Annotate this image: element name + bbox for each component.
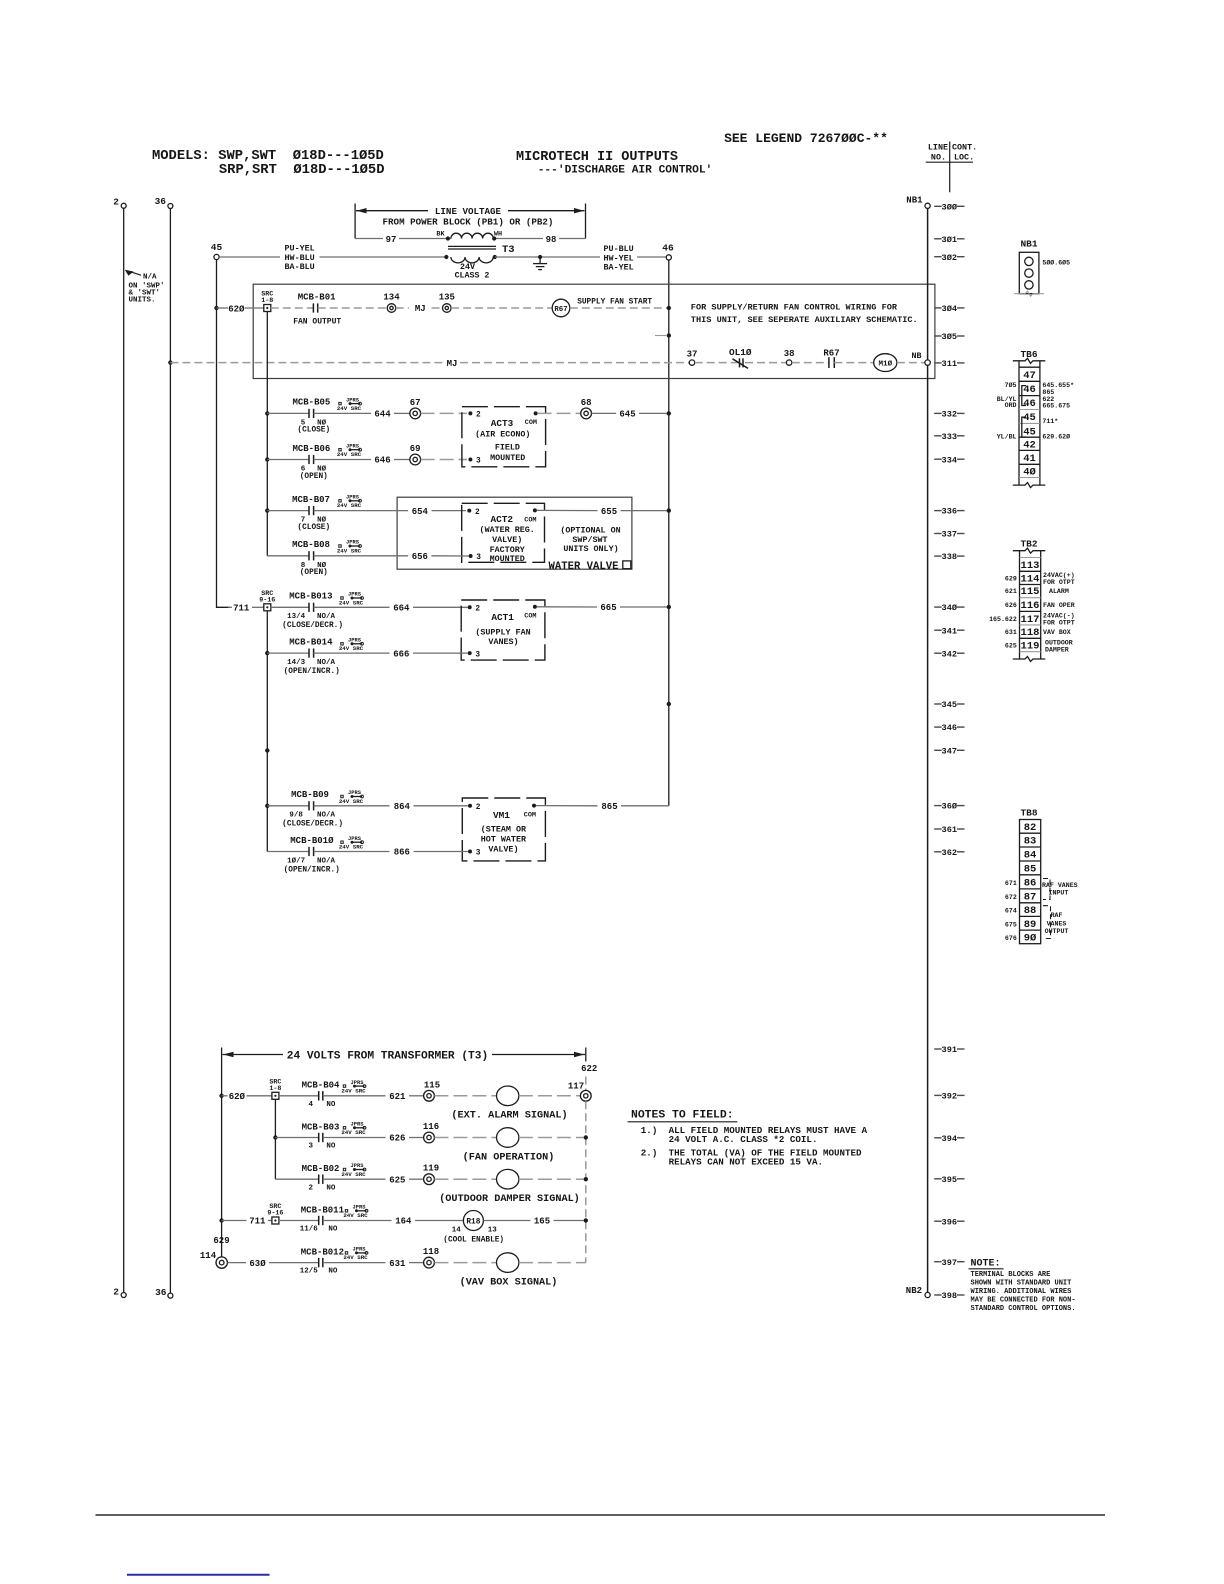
node 115 xyxy=(424,1080,441,1101)
svg-text:NO: NO xyxy=(328,1226,338,1234)
jumper symbol JPRS 24V SRC for B02 xyxy=(341,1163,366,1178)
title MODELS line 1 xyxy=(152,148,384,164)
svg-text:3: 3 xyxy=(476,458,481,466)
ACT1 pin 3 xyxy=(468,651,481,659)
junction dot rail46 wire 655 xyxy=(667,508,671,512)
svg-text:(CLOSE): (CLOSE) xyxy=(297,524,330,532)
svg-text:FAN OPER: FAN OPER xyxy=(1043,602,1075,609)
svg-text:(CLOSE/DECR.): (CLOSE/DECR.) xyxy=(282,821,343,829)
svg-text:MCB-B01Ø: MCB-B01Ø xyxy=(290,836,334,846)
svg-text:MAY BE CONNECTED FOR NON-: MAY BE CONNECTED FOR NON- xyxy=(971,1296,1076,1304)
VM1 pin COM xyxy=(524,804,536,820)
VM1 pin 2 xyxy=(468,804,481,812)
svg-text:645: 645 xyxy=(619,410,635,420)
svg-text:1Ø/7: 1Ø/7 xyxy=(287,856,305,865)
svg-text:3: 3 xyxy=(308,1143,313,1151)
line number 337 xyxy=(934,530,964,540)
label 24V CLASS 2 xyxy=(455,263,490,281)
svg-text:665.675: 665.675 xyxy=(1042,402,1070,409)
svg-text:391: 391 xyxy=(942,1045,957,1055)
svg-text:NB2: NB2 xyxy=(906,1286,922,1296)
lamp outdoor damper signal xyxy=(439,1169,580,1205)
svg-text:113: 113 xyxy=(1021,560,1040,572)
svg-text:(AIR ECONO): (AIR ECONO) xyxy=(475,429,530,439)
junction dot rail46 wire 645 xyxy=(667,411,671,415)
wire dashed node 135 to relay R67 xyxy=(451,307,552,309)
contact MCB-B02 xyxy=(275,1164,339,1192)
wire MJ between nodes 134 135 xyxy=(396,304,443,314)
wire 865 VM1 COM to rail46 corner xyxy=(536,802,669,812)
svg-text:R18: R18 xyxy=(466,1219,480,1227)
ACT2 pin 2 xyxy=(467,509,480,517)
junction dot rail46 line 304 xyxy=(667,306,671,310)
actuator ACT1 dashed box xyxy=(461,600,545,660)
valve motor VM1 dashed box xyxy=(462,798,545,861)
note for supply/return fan control wiring xyxy=(691,303,918,326)
svg-text:N/A: N/A xyxy=(143,274,157,282)
svg-text:341: 341 xyxy=(942,626,957,636)
wire rail SRC9-16 down to B010 xyxy=(266,611,268,852)
source SRC 9-16 square rung B011 xyxy=(267,1203,283,1224)
wire dashed alarm lamp to node 117 xyxy=(519,1095,581,1097)
terminal block TB8 xyxy=(1005,808,1078,945)
label 622 with dashed stub xyxy=(581,1064,597,1090)
svg-text:711: 711 xyxy=(249,1217,266,1227)
svg-text:82: 82 xyxy=(1024,822,1037,834)
wire 164 xyxy=(323,1217,464,1227)
svg-text:JPRS: JPRS xyxy=(353,1205,367,1211)
svg-text:MCB-B013: MCB-B013 xyxy=(289,592,332,602)
node 68 xyxy=(581,398,592,419)
svg-text:3: 3 xyxy=(476,554,481,562)
line number 362 xyxy=(934,848,964,858)
note N/A on SWP and SWT units with arrow xyxy=(125,270,165,305)
wire dashed rail 117 down to B012 xyxy=(585,1101,587,1262)
svg-text:24V SRC: 24V SRC xyxy=(337,451,362,458)
svg-text:42: 42 xyxy=(1023,439,1036,451)
footer rule xyxy=(96,1514,1106,1516)
svg-text:646: 646 xyxy=(374,456,390,466)
ACT1 labels xyxy=(475,612,530,647)
svg-text:24V SRC: 24V SRC xyxy=(341,1087,366,1094)
svg-text:24V SRC: 24V SRC xyxy=(343,1212,368,1219)
wire dashed OL10 to 38 xyxy=(745,362,786,364)
junction dot rail267 B014 xyxy=(265,651,269,655)
wire 664 xyxy=(314,604,468,614)
node 36 bottom terminal xyxy=(155,1287,173,1298)
line number 311 xyxy=(934,359,964,369)
junction dot rail267 B07 xyxy=(265,508,269,512)
svg-text:711: 711 xyxy=(233,604,250,614)
line number 341 xyxy=(934,626,964,636)
svg-text:T3: T3 xyxy=(502,244,515,256)
wire dashed SRC to contact B01 xyxy=(271,307,314,309)
svg-text:FROM POWER BLOCK (PB1) OR (PB2: FROM POWER BLOCK (PB1) OR (PB2) xyxy=(383,216,554,227)
svg-text:BK: BK xyxy=(436,231,445,239)
svg-text:2: 2 xyxy=(113,1287,119,1298)
label T3 xyxy=(502,244,515,256)
svg-text:3Ø4: 3Ø4 xyxy=(942,304,957,314)
wire dashed damper lamp to dashed rail xyxy=(519,1178,584,1180)
wire dashed contact B01 to node 134 xyxy=(318,307,387,309)
svg-text:JPRS: JPRS xyxy=(348,638,362,644)
svg-text:MCB-B04: MCB-B04 xyxy=(302,1081,340,1091)
contact MCB-B03 xyxy=(275,1122,339,1150)
svg-text:VANES): VANES) xyxy=(488,637,518,647)
line number 360 xyxy=(934,802,964,812)
svg-text:MICROTECH II OUTPUTS: MICROTECH II OUTPUTS xyxy=(516,150,678,165)
svg-text:621: 621 xyxy=(389,1092,406,1102)
svg-text:SEE LEGEND 7267ØØC-**: SEE LEGEND 7267ØØC-** xyxy=(724,131,888,146)
wire rail 2 vertical xyxy=(123,208,125,1292)
svg-text:675: 675 xyxy=(1005,921,1017,928)
svg-text:97: 97 xyxy=(386,235,397,245)
svg-text:1.): 1.) xyxy=(641,1125,658,1136)
node 2 top terminal xyxy=(113,197,126,209)
svg-text:FAN OUTPUT: FAN OUTPUT xyxy=(293,317,341,326)
svg-text:629.62Ø: 629.62Ø xyxy=(1042,432,1070,440)
line number 334 xyxy=(934,455,964,465)
svg-text:36: 36 xyxy=(155,1287,167,1298)
svg-text:24V SRC: 24V SRC xyxy=(337,405,362,412)
line number 305 xyxy=(934,332,964,342)
wire 165 R18 to dashed rail xyxy=(483,1217,583,1227)
svg-text:LINE VOLTAGE: LINE VOLTAGE xyxy=(435,206,502,217)
svg-text:NOTES TO FIELD:: NOTES TO FIELD: xyxy=(631,1110,734,1122)
svg-text:FOR OTPT: FOR OTPT xyxy=(1043,579,1075,586)
wire 644 xyxy=(314,410,410,420)
line number 391 xyxy=(934,1045,964,1055)
label BK xyxy=(436,231,445,239)
svg-text:665: 665 xyxy=(600,603,616,613)
svg-text:117: 117 xyxy=(568,1082,584,1092)
wire 645 node 68 to rail46 xyxy=(592,410,667,420)
node 46 terminal xyxy=(662,243,674,261)
jumper symbol JPRS 24V SRC for B03 xyxy=(341,1122,366,1137)
svg-text:MCB-B03: MCB-B03 xyxy=(302,1122,340,1132)
svg-text:MOUNTED: MOUNTED xyxy=(490,554,525,564)
svg-text:63Ø: 63Ø xyxy=(249,1259,266,1269)
junction dot rung 311 at rail 36 xyxy=(168,360,172,364)
svg-text:24V SRC: 24V SRC xyxy=(341,1129,366,1136)
svg-text:WATER VALVE: WATER VALVE xyxy=(549,561,619,573)
svg-text:98: 98 xyxy=(546,235,557,245)
source SRC 1-8 square rung B04 xyxy=(269,1078,281,1099)
contact MCB-B012 xyxy=(300,1247,344,1275)
svg-text:361: 361 xyxy=(942,825,957,835)
line number 302 xyxy=(934,253,964,263)
wire 666 xyxy=(314,649,468,659)
svg-text:34Ø: 34Ø xyxy=(942,603,957,613)
transformer T3 core xyxy=(448,246,496,249)
svg-text:2.): 2.) xyxy=(641,1147,658,1158)
svg-text:46: 46 xyxy=(662,243,674,254)
svg-text:164: 164 xyxy=(395,1217,412,1227)
ACT1 pin COM xyxy=(524,605,537,621)
svg-text:47: 47 xyxy=(1023,370,1036,382)
line number 361 xyxy=(934,825,964,835)
node 69 xyxy=(410,444,421,465)
wire 711 rung B011 lead xyxy=(222,1217,272,1227)
svg-text:JPRS: JPRS xyxy=(346,495,360,501)
svg-text:666: 666 xyxy=(393,649,409,659)
svg-text:24V SRC: 24V SRC xyxy=(343,1254,368,1261)
svg-text:NO/A: NO/A xyxy=(317,659,336,667)
svg-text:MCB-B08: MCB-B08 xyxy=(292,540,330,550)
wire 655 ACT2 COM to rail46 xyxy=(537,507,667,517)
node 119 xyxy=(423,1164,439,1185)
node 118 xyxy=(423,1247,439,1268)
notes to field item 1 xyxy=(641,1125,868,1145)
svg-text:(CLOSE/DECR.): (CLOSE/DECR.) xyxy=(282,622,343,630)
svg-text:24 VOLTS FROM TRANSFORMER (T3): 24 VOLTS FROM TRANSFORMER (T3) xyxy=(287,1050,488,1062)
svg-text:MCB-B02: MCB-B02 xyxy=(302,1164,340,1174)
node NB1 top of right rail xyxy=(906,196,930,209)
jumper symbol JPRS 24V SRC for B014 xyxy=(339,638,364,653)
svg-text:BA-BLU: BA-BLU xyxy=(285,262,315,272)
junction dot rail46 line 345 xyxy=(667,702,671,706)
svg-text:NO.: NO. xyxy=(931,153,946,163)
jumper symbol JPRS 24V SRC for B07 xyxy=(337,495,362,510)
svg-text:STANDARD CONTROL OPTIONS.: STANDARD CONTROL OPTIONS. xyxy=(971,1305,1076,1313)
svg-text:346: 346 xyxy=(942,723,957,733)
line number 304 xyxy=(934,304,964,314)
overload contact OL10 xyxy=(729,347,752,368)
svg-text:ACT2: ACT2 xyxy=(491,514,514,525)
svg-text:135: 135 xyxy=(439,292,455,302)
wire transformer primary xyxy=(355,235,585,245)
svg-text:671: 671 xyxy=(1005,880,1017,887)
ACT3 pin COM xyxy=(525,411,538,427)
wire dashed 38 to R67 contact xyxy=(792,362,829,364)
contact MCB-B07 xyxy=(267,495,330,532)
wire rail 36 vertical xyxy=(169,209,171,1294)
wire 625 xyxy=(323,1175,424,1185)
svg-text:332: 332 xyxy=(942,410,957,420)
jumper symbol JPRS 24V SRC for B012 xyxy=(343,1247,368,1262)
svg-text:DAMPER: DAMPER xyxy=(1045,646,1069,653)
svg-text:334: 334 xyxy=(942,455,957,465)
node 2 bottom terminal xyxy=(113,1287,126,1298)
junction dot secondary left xyxy=(444,255,448,259)
svg-text:9Ø: 9Ø xyxy=(1024,932,1037,944)
wire dashed node 67 to ACT3 pin2 xyxy=(421,412,467,414)
junction dot rail267 B05 xyxy=(265,411,269,415)
svg-text:CLASS 2: CLASS 2 xyxy=(455,272,490,281)
svg-text:SHOWN WITH STANDARD UNIT: SHOWN WITH STANDARD UNIT xyxy=(971,1280,1072,1288)
junction dot rail267 B06 xyxy=(265,457,269,461)
svg-text:2: 2 xyxy=(475,509,480,517)
jumper symbol JPRS 24V SRC for B05 xyxy=(337,397,362,412)
line number 346 xyxy=(934,723,964,733)
svg-text:865: 865 xyxy=(1042,389,1054,396)
svg-text:(COOL ENABLE): (COOL ENABLE) xyxy=(443,1236,504,1244)
wire dashed node 118 to vav lamp xyxy=(434,1262,496,1264)
svg-text:3: 3 xyxy=(476,850,481,858)
svg-text:MJ: MJ xyxy=(447,359,458,369)
svg-text:114: 114 xyxy=(200,1251,217,1261)
svg-text:62Ø: 62Ø xyxy=(229,1092,246,1102)
svg-text:117: 117 xyxy=(1021,614,1040,626)
svg-text:115: 115 xyxy=(424,1080,440,1090)
contact MCB-B01 xyxy=(293,292,341,326)
svg-text:JPRS: JPRS xyxy=(346,443,360,449)
svg-text:24V SRC: 24V SRC xyxy=(337,502,362,509)
actuator ACT2 dashed box xyxy=(462,503,545,562)
svg-text:24V SRC: 24V SRC xyxy=(337,547,362,554)
svg-text:626: 626 xyxy=(389,1134,405,1144)
wire rail SRC1-8 down to B02 xyxy=(274,1099,276,1179)
svg-text:621: 621 xyxy=(1005,588,1017,595)
actuator ACT3 dashed box xyxy=(462,407,546,467)
svg-text:672: 672 xyxy=(1005,894,1017,901)
svg-text:395: 395 xyxy=(942,1175,957,1185)
svg-text:38: 38 xyxy=(784,349,795,359)
svg-text:342: 342 xyxy=(942,649,957,659)
svg-text:LOC.: LOC. xyxy=(954,153,974,163)
svg-text:337: 337 xyxy=(942,530,957,540)
svg-text:625: 625 xyxy=(1005,643,1017,650)
ACT2 labels xyxy=(480,514,535,564)
line number 345 xyxy=(934,700,964,710)
line number 340 xyxy=(934,603,964,613)
svg-text:(OPEN/INCR.): (OPEN/INCR.) xyxy=(284,866,340,874)
svg-text:24V SRC: 24V SRC xyxy=(339,844,364,851)
svg-text:864: 864 xyxy=(394,802,411,812)
svg-text:RAF VANES: RAF VANES xyxy=(1042,882,1078,889)
node 37 xyxy=(687,349,698,365)
svg-text:INPUT: INPUT xyxy=(1049,889,1069,896)
svg-text:3ØØ: 3ØØ xyxy=(942,202,957,212)
svg-text:345: 345 xyxy=(942,700,957,710)
motor coil M10 xyxy=(874,354,897,372)
svg-text:24V SRC: 24V SRC xyxy=(339,645,364,652)
jumper symbol JPRS 24V SRC for B010 xyxy=(339,836,364,851)
label WATER VALVE with tag square xyxy=(549,561,631,573)
contact MCB-B010 xyxy=(267,836,339,874)
svg-text:JPRS: JPRS xyxy=(351,1080,365,1086)
svg-text:311: 311 xyxy=(942,359,957,369)
label PU-YEL HW-BLU BA-BLU xyxy=(285,244,315,273)
source SRC 9-16 square rung B013 xyxy=(259,590,275,611)
svg-text:JPRS: JPRS xyxy=(348,790,362,796)
svg-text:COM: COM xyxy=(525,419,537,427)
notes to field item 2 xyxy=(641,1147,862,1167)
svg-text:165: 165 xyxy=(534,1217,550,1227)
jumper symbol JPRS 24V SRC for B06 xyxy=(337,443,362,458)
contact MCB-B014 xyxy=(267,638,339,676)
svg-text:SRP,SRT Ø18D---1Ø5D: SRP,SRT Ø18D---1Ø5D xyxy=(219,162,385,178)
water valve option labels xyxy=(560,526,620,554)
svg-text:COM: COM xyxy=(524,613,536,621)
svg-text:631: 631 xyxy=(1005,629,1017,636)
svg-text:333: 333 xyxy=(942,432,957,442)
svg-text:84: 84 xyxy=(1024,850,1037,862)
svg-text:45: 45 xyxy=(211,242,223,253)
line number 398 xyxy=(934,1291,964,1301)
junction dot dashed rail B011 xyxy=(584,1218,588,1222)
svg-text:VAV BOX: VAV BOX xyxy=(1043,629,1071,636)
svg-text:68: 68 xyxy=(581,398,592,408)
wire 630 node 114 to contact B012 xyxy=(227,1259,318,1269)
wire rail SRC1-8 down through box to B08 xyxy=(266,312,268,556)
header LINE NO / CONT LOC table xyxy=(926,142,977,193)
wire dashed 37 to OL10 xyxy=(695,362,738,364)
svg-text:3Ø2: 3Ø2 xyxy=(942,253,957,263)
svg-text:3: 3 xyxy=(475,651,480,659)
svg-text:WIRING. ADDITIONAL WIRES: WIRING. ADDITIONAL WIRES xyxy=(971,1288,1072,1296)
ACT3 labels xyxy=(475,418,530,463)
svg-text:664: 664 xyxy=(393,604,410,614)
svg-text:629: 629 xyxy=(1005,576,1017,583)
svg-text:ORD: ORD xyxy=(1005,402,1017,409)
svg-text:392: 392 xyxy=(942,1092,957,1102)
svg-text:24 VOLT A.C. CLASS *2 COIL.: 24 VOLT A.C. CLASS *2 COIL. xyxy=(669,1134,818,1145)
svg-text:11/6: 11/6 xyxy=(300,1226,319,1234)
subtitle DISCHARGE AIR CONTROL xyxy=(538,165,713,177)
svg-text:NB1: NB1 xyxy=(1020,239,1037,250)
svg-text:396: 396 xyxy=(942,1217,957,1227)
wire rail 46 down to wire 865 corner xyxy=(668,260,670,806)
footer blue link line xyxy=(127,1574,270,1576)
wire 620 rung B04 xyxy=(222,1092,272,1102)
svg-text:12/5: 12/5 xyxy=(300,1268,319,1276)
svg-text:46: 46 xyxy=(1023,398,1036,410)
line number 395 xyxy=(934,1175,964,1185)
svg-text:(OUTDOOR DAMPER SIGNAL): (OUTDOOR DAMPER SIGNAL) xyxy=(439,1193,580,1205)
svg-text:9/8: 9/8 xyxy=(289,812,303,820)
wire dashed fan lamp to dashed rail xyxy=(519,1137,584,1139)
jumper symbol JPRS 24V SRC for B08 xyxy=(337,540,362,555)
svg-text:VALVE): VALVE) xyxy=(488,844,518,854)
junction dot dashed rail B03 xyxy=(584,1135,588,1139)
svg-text:114: 114 xyxy=(1021,574,1040,586)
svg-text:625: 625 xyxy=(389,1175,405,1185)
wire dashed R67 contact to M10 xyxy=(834,362,873,364)
label WH xyxy=(494,231,502,239)
contact MCB-B05 xyxy=(267,398,330,435)
svg-text:JPRS: JPRS xyxy=(353,1247,367,1253)
lamp fan operation xyxy=(463,1128,555,1164)
wire 665 ACT1 COM to rail46 xyxy=(537,603,667,613)
svg-text:NO/A: NO/A xyxy=(317,812,336,820)
label 629 xyxy=(213,1236,229,1246)
svg-text:2: 2 xyxy=(476,804,481,812)
svg-text:COM: COM xyxy=(524,516,536,524)
svg-text:NO: NO xyxy=(326,1184,336,1192)
svg-text:24VAC(-): 24VAC(-) xyxy=(1043,613,1075,620)
svg-text:165.622: 165.622 xyxy=(989,616,1017,623)
jumper symbol JPRS 24V SRC for B011 xyxy=(343,1205,368,1220)
svg-text:134: 134 xyxy=(383,292,400,302)
svg-text:ALARM: ALARM xyxy=(1049,588,1069,595)
node NB xyxy=(911,351,930,366)
wire dashed vav lamp corner to dashed rail xyxy=(519,1262,586,1264)
line number 347 xyxy=(934,746,964,756)
wire 656 xyxy=(314,552,469,562)
title SEE LEGEND xyxy=(724,131,888,146)
svg-text:711*: 711* xyxy=(1042,418,1058,425)
svg-text:45: 45 xyxy=(1023,412,1036,424)
contact MCB-B011 xyxy=(279,1205,345,1233)
wire 654 xyxy=(314,507,466,517)
svg-text:36Ø: 36Ø xyxy=(942,802,957,812)
svg-text:88: 88 xyxy=(1024,905,1037,917)
svg-text:(WATER REG.: (WATER REG. xyxy=(480,525,535,535)
svg-text:(EXT. ALARM SIGNAL): (EXT. ALARM SIGNAL) xyxy=(451,1110,567,1122)
wire right rail NB vertical xyxy=(927,208,929,1292)
jumper symbol JPRS 24V SRC for B04 xyxy=(341,1080,366,1095)
